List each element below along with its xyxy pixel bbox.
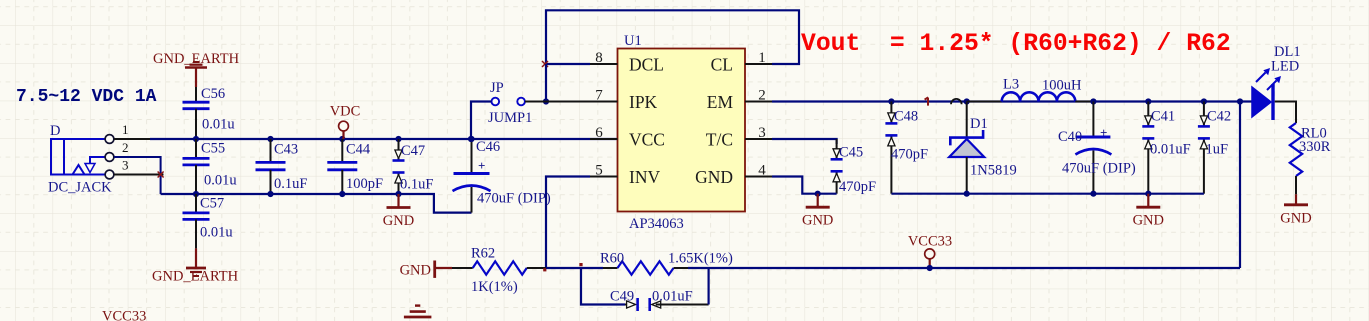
junction GND net pin4 <box>815 191 821 197</box>
svg-text:DC_JACK: DC_JACK <box>48 180 112 196</box>
junction C40 <box>1090 98 1096 104</box>
svg-text:0.01uF: 0.01uF <box>652 289 693 305</box>
wire feedback bus right <box>688 267 1240 269</box>
svg-text:GND: GND <box>1133 213 1164 229</box>
svg-text:C44: C44 <box>346 142 371 158</box>
svg-text:100uH: 100uH <box>1042 78 1082 94</box>
svg-text:0.01u: 0.01u <box>202 117 235 133</box>
junction C41 bottom <box>1145 191 1151 197</box>
jack pin 2 <box>105 153 114 162</box>
junction C46 top <box>468 136 474 142</box>
jumper JP JUMP1 <box>492 98 525 106</box>
svg-text:0.1uF: 0.1uF <box>400 177 433 193</box>
junction D1 <box>964 98 970 104</box>
ground GND under U1 <box>817 194 819 208</box>
svg-text:L3: L3 <box>1003 77 1019 93</box>
junction JUMP1 rail <box>468 136 474 142</box>
wire JUMP1 right pin to IPK <box>525 101 618 103</box>
junction C56 rail <box>193 136 199 142</box>
junction C55 GND rail <box>193 191 199 197</box>
junction C41 <box>1145 98 1151 104</box>
junction VCC33 <box>927 265 933 271</box>
svg-text:CL: CL <box>711 55 733 75</box>
junction C40 bottom <box>1090 191 1096 197</box>
svg-text:D: D <box>50 123 60 139</box>
svg-text:470pF: 470pF <box>891 147 928 163</box>
ground GND under RL0 <box>1295 194 1297 205</box>
svg-text:GND: GND <box>383 213 414 229</box>
jack pin 3 <box>105 170 114 179</box>
svg-text:C43: C43 <box>274 142 298 158</box>
svg-text:C55: C55 <box>201 141 225 157</box>
wire jack pin3 stub <box>114 174 164 176</box>
ground GND under C47 <box>397 194 399 208</box>
capacitor C42 <box>1203 102 1205 127</box>
svg-text:+: + <box>478 158 485 173</box>
capacitor C49 <box>625 298 709 311</box>
capacitor C57 <box>183 194 210 248</box>
svg-text:U1: U1 <box>624 33 642 49</box>
wire INV to feedback <box>546 177 590 269</box>
wire GND pin4 to C45 bottom <box>772 177 837 194</box>
capacitor C45 <box>836 139 838 159</box>
resistor R62 <box>452 261 546 274</box>
svg-text:C45: C45 <box>839 145 863 161</box>
svg-text:C56: C56 <box>201 86 225 102</box>
svg-text:R60: R60 <box>600 251 624 267</box>
resistor R60 <box>603 261 688 274</box>
svg-text:C46: C46 <box>476 139 500 155</box>
svg-text:JP: JP <box>490 80 504 96</box>
capacitor C46 <box>453 139 491 213</box>
junction marker C49 branch <box>579 263 582 266</box>
junction C43 top <box>267 136 273 142</box>
ground GND right rail <box>1147 194 1149 208</box>
jack pin 1 <box>105 135 114 144</box>
wire feedback bus left <box>546 267 603 269</box>
svg-text:VDC: VDC <box>330 104 361 120</box>
svg-text:C40: C40 <box>1058 129 1082 145</box>
junction output feedback <box>1237 98 1243 104</box>
svg-text:C42: C42 <box>1207 109 1231 125</box>
wire C49 branch <box>581 268 625 305</box>
svg-text:VCC33: VCC33 <box>908 233 952 249</box>
svg-text:IPK: IPK <box>629 92 658 112</box>
svg-text:+: + <box>1100 125 1107 140</box>
svg-text:C49: C49 <box>610 289 634 305</box>
svg-text:Vout = 1.25* (R60+R62) / R62: Vout = 1.25* (R60+R62) / R62 <box>801 30 1231 58</box>
junction marker INV feedback <box>543 268 546 271</box>
capacitor C44 <box>327 139 357 194</box>
capacitor C43 <box>256 139 286 194</box>
LED DL1 <box>1252 68 1281 120</box>
svg-text:0.01uF: 0.01uF <box>1150 142 1191 158</box>
earth symbol bottom <box>404 306 432 317</box>
capacitor C41 <box>1147 102 1149 127</box>
capacitor C55 <box>183 139 210 194</box>
wire LED to RL0 <box>1275 102 1296 124</box>
junction C44 bottom <box>339 191 345 197</box>
wire hop arc <box>951 99 962 104</box>
no-ERC marker DCL corner <box>542 61 548 67</box>
no-ERC marker EM net <box>925 97 929 105</box>
svg-text:C47: C47 <box>401 143 425 159</box>
svg-text:100pF: 100pF <box>346 176 383 192</box>
power port VDC <box>330 104 361 140</box>
connector D DC_JACK <box>51 139 105 175</box>
wire DCL to CL loop <box>546 10 799 64</box>
svg-text:0.1uF: 0.1uF <box>274 176 307 192</box>
svg-text:3: 3 <box>122 158 129 173</box>
junction D1 bottom <box>964 191 970 197</box>
wire jack pin1 to VDC rail <box>114 138 196 140</box>
svg-text:1: 1 <box>122 122 129 137</box>
wire C49 up to bus <box>707 268 709 305</box>
svg-text:GND: GND <box>400 263 431 279</box>
svg-text:0.01u: 0.01u <box>200 225 233 241</box>
svg-text:C48: C48 <box>894 109 918 125</box>
capacitor C48 <box>890 102 892 124</box>
svg-text:R62: R62 <box>471 246 495 262</box>
wire bus to output <box>1239 102 1241 269</box>
svg-text:2: 2 <box>122 140 129 155</box>
junction IPK net <box>543 98 549 104</box>
junction C48 <box>888 98 894 104</box>
capacitor C47 <box>398 139 400 161</box>
svg-text:GND_EARTH: GND_EARTH <box>152 269 239 285</box>
U1 pin stubs <box>590 64 772 177</box>
svg-text:VCC: VCC <box>629 130 665 150</box>
svg-text:VCC33: VCC33 <box>102 309 146 321</box>
svg-text:JUMP1: JUMP1 <box>488 110 532 126</box>
svg-text:1uF: 1uF <box>1206 142 1229 158</box>
power port GND_EARTH top <box>153 51 240 87</box>
svg-text:INV: INV <box>629 167 660 187</box>
svg-text:LED: LED <box>1271 59 1299 75</box>
svg-text:1K(1%): 1K(1%) <box>471 279 518 295</box>
svg-text:GND: GND <box>802 213 833 229</box>
svg-text:GND: GND <box>695 167 733 187</box>
junction C44 top <box>339 136 345 142</box>
wire TC to C45 <box>772 139 837 144</box>
svg-text:T/C: T/C <box>706 130 733 150</box>
svg-text:330R: 330R <box>1299 139 1331 155</box>
power port VCC33 <box>908 233 952 268</box>
svg-text:1N5819: 1N5819 <box>970 163 1017 179</box>
power port GND_EARTH bottom <box>152 248 239 284</box>
svg-text:0.01u: 0.01u <box>204 173 237 189</box>
wire RL0 to ground <box>1295 176 1297 194</box>
resistor RL0 <box>1290 123 1302 176</box>
svg-text:7.5~12 VDC 1A: 7.5~12 VDC 1A <box>16 87 157 107</box>
junction marker pin3 <box>158 172 164 178</box>
svg-text:1.65K(1%): 1.65K(1%) <box>668 251 733 267</box>
svg-text:GND: GND <box>1280 210 1311 226</box>
power port GND horizontal for R62 <box>400 261 452 279</box>
junction C47 top <box>395 136 401 142</box>
capacitor C56 <box>183 87 210 139</box>
wire VDC rail <box>150 138 618 140</box>
wire JUMP1 left pin to VDC rail <box>471 102 491 140</box>
svg-text:DCL: DCL <box>629 55 664 75</box>
wire GND rail right <box>891 193 1204 195</box>
svg-text:C41: C41 <box>1151 109 1175 125</box>
junction C47 bottom <box>395 191 401 197</box>
junction C43 bottom <box>267 191 273 197</box>
svg-text:EM: EM <box>707 92 734 112</box>
svg-text:470uF (DIP): 470uF (DIP) <box>477 191 551 207</box>
op-amp U1 AP34063 body <box>618 49 746 212</box>
wire EM output <box>772 100 1252 102</box>
svg-text:AP34063: AP34063 <box>629 216 684 232</box>
capacitor C40 electrolytic <box>1075 102 1111 194</box>
svg-text:D1: D1 <box>970 116 988 132</box>
svg-text:C57: C57 <box>200 196 224 212</box>
svg-text:470uF (DIP): 470uF (DIP) <box>1062 161 1136 177</box>
svg-text:470pF: 470pF <box>839 179 876 195</box>
wire DCL vertical to IPK net <box>545 64 547 102</box>
wire jack pin2 down to GND rail <box>114 157 161 194</box>
inductor L3 <box>967 92 1094 101</box>
diode D1 1N5819 schottky <box>949 102 984 194</box>
junction C42 <box>1201 98 1207 104</box>
wire GND rail left <box>161 194 472 213</box>
